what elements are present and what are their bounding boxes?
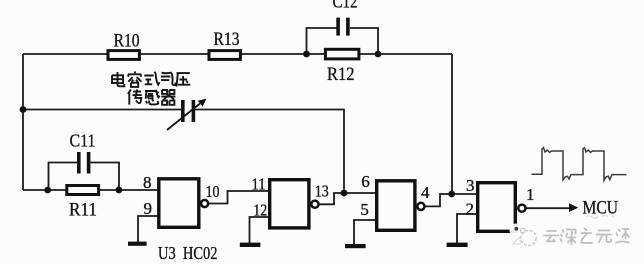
op-amp U3C gate (pins 6,5 -> 4) — [360, 172, 430, 230]
svg-text:9: 9 — [144, 199, 153, 218]
arrow to MCU — [569, 203, 578, 212]
wire C11 branch right — [91, 163, 120, 191]
wire gate3 pin5 to ground — [354, 220, 375, 244]
resistor R10 — [108, 31, 140, 60]
svg-text:11: 11 — [252, 174, 266, 193]
node top junction left (C12 left) — [303, 51, 310, 58]
resistor R11 — [67, 186, 99, 221]
label 电容式气压 (bold sensor text) — [112, 72, 190, 87]
svg-text:C11: C11 — [70, 131, 96, 151]
node R11 left junction — [44, 187, 51, 194]
resistor R13 — [209, 29, 240, 59]
char 电 — [112, 72, 124, 86]
watermark logo blob — [510, 224, 537, 246]
svg-text:R11: R11 — [69, 200, 97, 221]
watermark text 云深之无迹 — [544, 229, 629, 245]
U3C output bubble pin 4 — [417, 203, 424, 210]
wire gate1 output to gate2 pin11 — [208, 191, 268, 204]
char 气 — [161, 73, 175, 86]
wire R11 feedback line into pin 8 — [23, 189, 158, 191]
svg-text:R10: R10 — [114, 31, 140, 52]
op-amp U3B gate (pins 11,12 -> 13) — [252, 174, 329, 228]
op-amp U3A gate (pins 8,9 -> 10) — [143, 173, 219, 228]
wire top rail between R13 and node C12L — [241, 53, 326, 55]
char 式 — [144, 72, 159, 85]
wire left vertical rail — [22, 54, 24, 190]
node top junction right (C12 right) — [375, 51, 382, 58]
ground (gate3 pin5) — [345, 244, 366, 248]
svg-text:R13: R13 — [214, 29, 240, 50]
ground (gate4 pin2) — [447, 243, 468, 247]
wire top rail between R12 and node C12R — [360, 53, 452, 55]
U3A output bubble pin 10 — [201, 200, 208, 207]
wire C12 branch right — [350, 28, 378, 54]
svg-text:3: 3 — [466, 176, 475, 195]
waveform output sketch — [532, 148, 627, 181]
wire gate2 pin12 to ground — [250, 217, 269, 243]
wire gate3 output to gate4 pin3 — [425, 194, 476, 206]
svg-text:13: 13 — [315, 182, 329, 201]
char 器 — [161, 90, 175, 105]
faint squiggle above watermark — [586, 216, 615, 219]
svg-text:8: 8 — [143, 173, 152, 192]
svg-text:R12: R12 — [327, 64, 355, 85]
wire gate2 output to gate3 pin6 — [319, 193, 375, 204]
wire sensor line right of plates then down to node A — [195, 110, 344, 194]
resistor R12 — [325, 49, 359, 85]
capacitor C11 — [70, 131, 96, 174]
svg-text:5: 5 — [360, 200, 369, 219]
node A junction (sensor drop meets gate3 pin6) — [341, 190, 348, 197]
U3B output bubble pin 13 — [311, 201, 318, 208]
wire top rail between R10 and R13 — [140, 53, 208, 55]
wire gate1 pin9 to ground — [138, 216, 158, 242]
wire sensor line left of plates — [23, 109, 181, 111]
U3D output bubble pin 1 — [518, 205, 525, 212]
svg-text:1: 1 — [526, 185, 535, 204]
wire C11 branch — [49, 163, 78, 191]
svg-text:2: 2 — [466, 200, 475, 219]
char 感 — [145, 90, 160, 105]
svg-text:10: 10 — [206, 182, 220, 201]
op-amp U3D gate (pins 3,2 -> 1) — [466, 176, 535, 231]
wire gate4 output to MCU arrow — [526, 207, 571, 209]
svg-text:6: 6 — [361, 172, 370, 191]
svg-text:12: 12 — [253, 200, 267, 219]
ground (gate1 pin9) — [128, 242, 147, 246]
wire gate4 pin2 to ground — [457, 214, 476, 243]
char 传 — [128, 90, 142, 105]
node sensor tap on left rail — [20, 106, 27, 113]
char 容 — [128, 72, 141, 87]
capacitor C12 — [333, 0, 358, 36]
node B junction (right drop meets gate4 pin3) — [448, 191, 455, 198]
label 传感器 (bold sensor text line 2) — [128, 90, 176, 105]
svg-text:U3 HC02: U3 HC02 — [158, 243, 218, 263]
char 压 — [177, 73, 191, 86]
svg-text:C12: C12 — [333, 0, 358, 13]
node R11 right junction — [116, 187, 123, 194]
ground (gate2 pin12) — [240, 243, 261, 247]
wire C12 branch left — [307, 28, 337, 54]
variable capacitor (pressure sensor) — [167, 99, 207, 131]
wire right vertical drop — [451, 54, 453, 194]
svg-text:4: 4 — [421, 183, 430, 202]
wire top rail left segment — [23, 53, 107, 55]
